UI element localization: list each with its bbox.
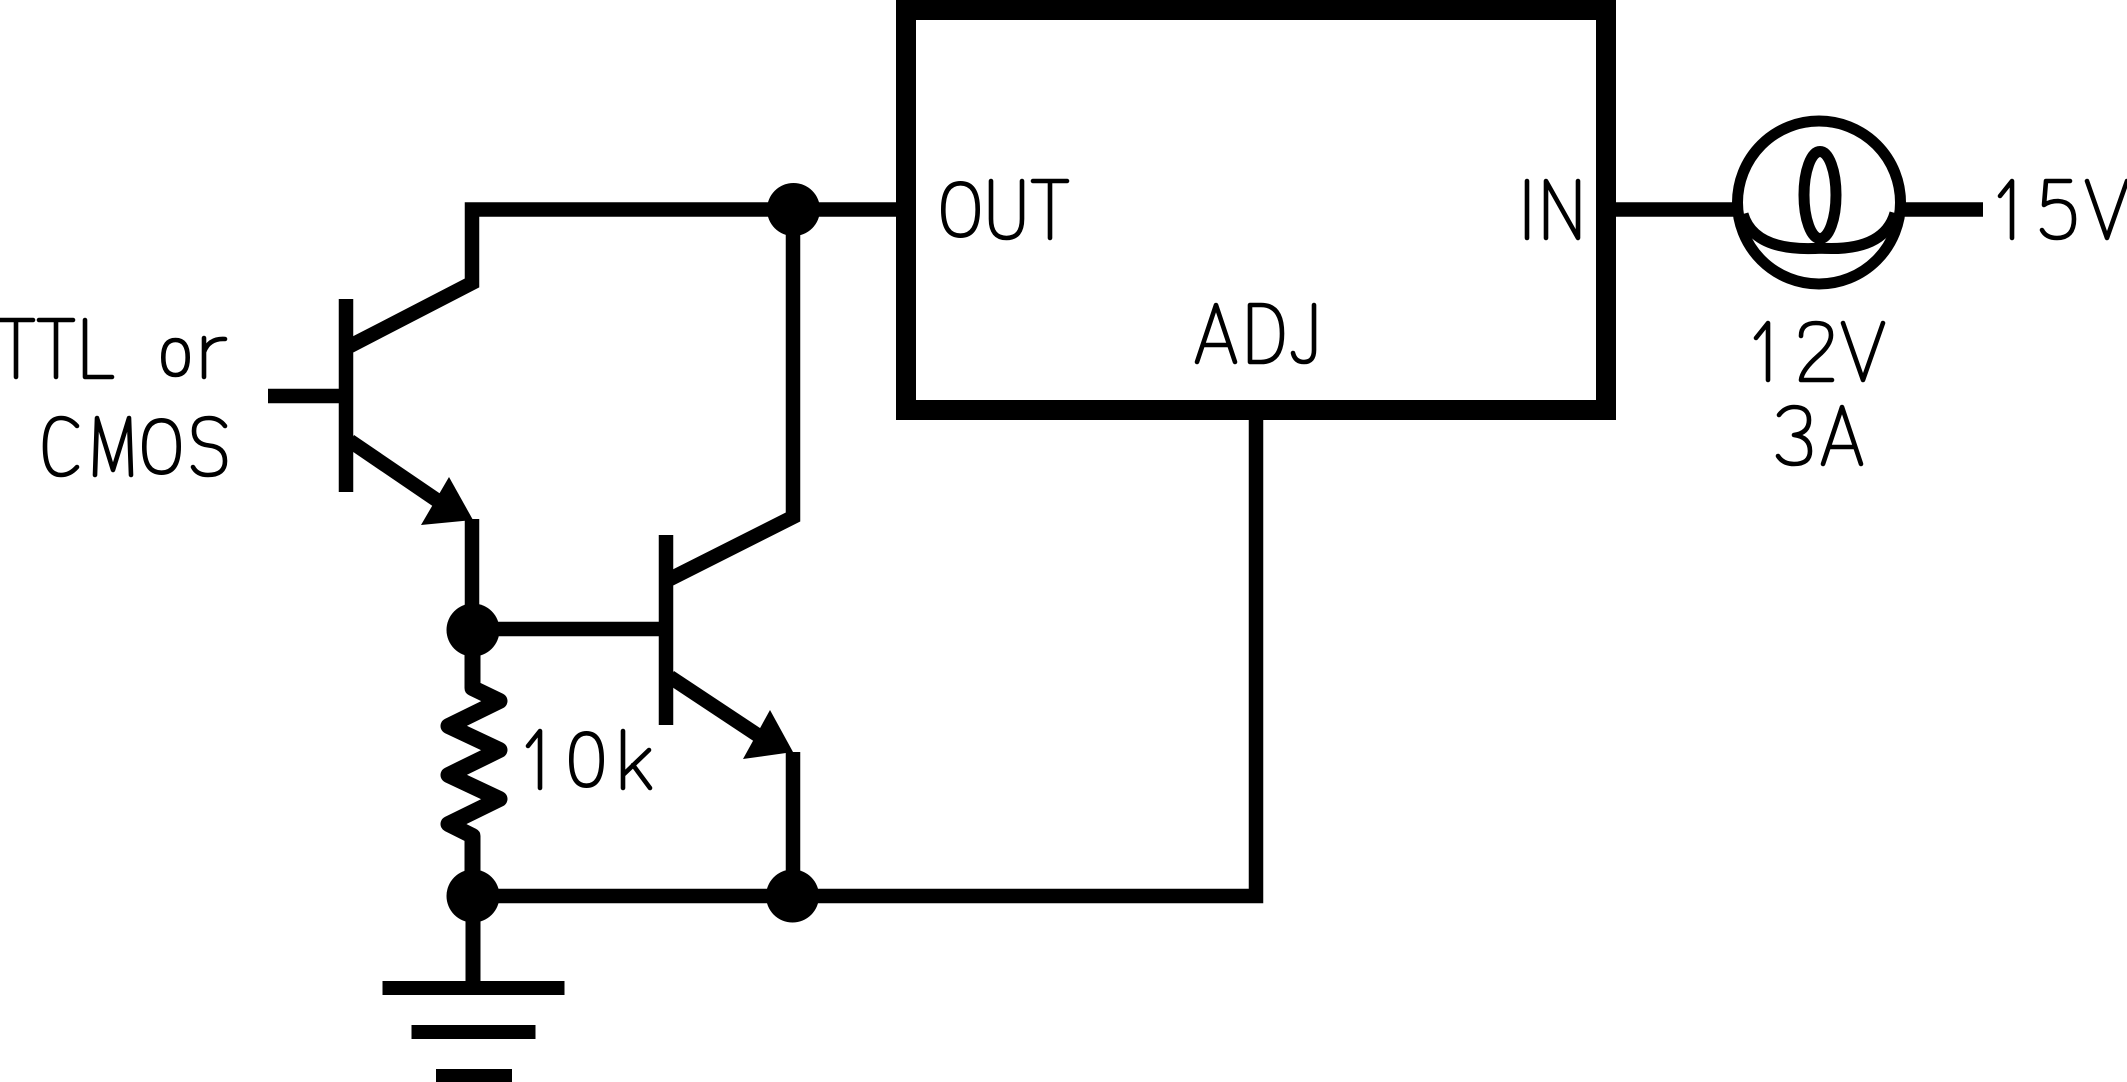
lamp DS1 circle xyxy=(1738,121,1901,284)
node B junction dot xyxy=(447,870,500,923)
node A junction dot xyxy=(447,604,500,657)
ground xyxy=(383,896,565,1082)
wire: Q2 emitter vertical down to node C xyxy=(786,752,801,896)
wire: lamp to 15V xyxy=(1900,202,1983,217)
label 15V xyxy=(2000,181,2127,238)
node C junction dot xyxy=(766,870,819,923)
transistor Q1 emitter diagonal xyxy=(350,441,441,503)
label IN xyxy=(1527,181,1578,238)
wire: node A to Q2 base xyxy=(472,622,666,637)
lamp DS1 filament loop xyxy=(1804,152,1836,239)
label TTL or xyxy=(0,320,225,377)
transistor Q2 emitter arrowhead xyxy=(743,710,793,759)
regulator box U1 xyxy=(906,10,1606,410)
wire: Q1 emitter down to node A xyxy=(465,519,480,630)
label 3A xyxy=(1778,407,1861,464)
wire: ADJ net horizontal and riser to ADJ pin xyxy=(473,418,1256,896)
transistor Q2 emitter diagonal xyxy=(670,677,762,738)
label 12V xyxy=(1756,323,1883,380)
node D junction dot on OUT net xyxy=(767,183,820,236)
wire: IN pin to lamp xyxy=(1616,202,1737,217)
transistor Q1 emitter arrowhead xyxy=(421,477,473,525)
wire: OUT net top horizontal with Q1 collector riser xyxy=(350,210,896,347)
wire: Q1 base lead from TTL/CMOS xyxy=(268,389,346,404)
label 10k xyxy=(528,731,650,788)
label OUT xyxy=(943,181,1067,238)
transistor Q1 base bar xyxy=(339,299,354,492)
wire: Q2 collector diagonal and riser to OUT net xyxy=(670,210,793,580)
label ADJ xyxy=(1197,305,1314,362)
resistor R1 10k zigzag xyxy=(449,630,500,896)
transistor Q2 base bar xyxy=(659,535,674,725)
label CMOS xyxy=(45,418,225,475)
